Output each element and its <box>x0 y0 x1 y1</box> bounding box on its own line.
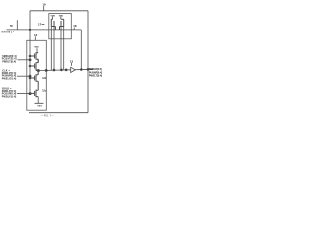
junction T3 gate <box>29 77 31 79</box>
wire right feedback vertical <box>87 11 89 113</box>
wire Q1 gate drop <box>53 27 55 70</box>
svg-text:SMXBL*: SMXBL* <box>1 32 14 34</box>
junction group 2 <box>29 75 31 77</box>
wire Q2 channel drop <box>63 27 65 71</box>
junction TE on gate bus <box>29 29 31 31</box>
wire input group 2 (CLK) <box>17 75 30 77</box>
svg-text:17: 17 <box>38 23 42 27</box>
transistor T3 (box 12) <box>30 70 38 90</box>
svg-text:PWDLT[0:4]: PWDLT[0:4] <box>2 61 16 64</box>
junction Q1 drop on output net <box>53 69 55 71</box>
svg-text:— FIG. 7 —: — FIG. 7 — <box>41 114 55 117</box>
transistor Q2 (PMOS, box 17 right) <box>60 19 64 30</box>
buffer U13 on output net <box>71 67 76 72</box>
junction node 18 on output net <box>80 69 82 71</box>
svg-text:VDD: VDD <box>59 15 64 17</box>
label 13 leader <box>70 63 72 66</box>
junction output net tap <box>65 69 67 71</box>
transistor T1 (PMOS, box 12) <box>30 52 38 62</box>
transistor T2 (box 12) <box>30 59 38 70</box>
wire output net to the right <box>36 69 93 70</box>
junction group 1 <box>29 59 31 61</box>
power VDD stub in box 12 <box>36 48 38 53</box>
svg-text:PWELY[0:4]: PWELY[0:4] <box>2 77 17 80</box>
svg-text:PWELT[0:4]: PWELT[0:4] <box>89 75 102 78</box>
junction group 3 <box>29 93 31 95</box>
svg-text:VDD: VDD <box>34 47 39 49</box>
power VDD stub left FET <box>52 17 54 19</box>
wire bottom return <box>29 112 88 114</box>
junction output tap T2 drain <box>37 70 39 72</box>
svg-text:TE: TE <box>10 25 13 28</box>
transistor Q1 (PMOS, box 17 left) <box>51 19 55 30</box>
transistor T4 (box 12) <box>30 90 38 98</box>
svg-text:12: 12 <box>34 33 38 37</box>
junction T1 gate <box>29 55 31 57</box>
junction T2 gate <box>29 65 31 67</box>
svg-text:13: 13 <box>70 59 74 63</box>
svg-text:12b: 12b <box>42 78 47 80</box>
wire left gate bus vertical <box>29 11 31 94</box>
svg-text:VSS: VSS <box>37 106 42 108</box>
wire node 18 drop to output net <box>80 30 82 70</box>
svg-text:VDD: VDD <box>51 15 56 17</box>
junction Q2 drop on output net <box>60 69 62 71</box>
label 12 leader <box>34 36 36 40</box>
wire Q2 gate drop <box>60 27 62 70</box>
label 19 leader <box>43 6 45 11</box>
svg-text:PWDLY[0:4]: PWDLY[0:4] <box>2 95 17 98</box>
wire TE terminal stub <box>16 20 18 30</box>
wire Q1 channel drop <box>50 27 52 71</box>
ground VSS symbol <box>35 97 44 104</box>
box 17 (PMOS pull-up pair block) <box>49 14 72 39</box>
box 12 (inverter chain block) <box>27 40 47 110</box>
junction box 12 output port <box>45 69 47 71</box>
label 17 leader <box>42 24 45 26</box>
junction right feedback on output net <box>87 68 89 70</box>
wire input group 1 <box>18 59 31 61</box>
wire TE / SMXBL* input net (runs through box 17 to node 18) <box>7 29 82 31</box>
wire top feedback rail (node 19) <box>30 10 88 12</box>
label 18 leader <box>73 28 75 30</box>
svg-text:19: 19 <box>42 3 46 7</box>
wire input group 3 (BULK) <box>17 93 30 95</box>
svg-text:18: 18 <box>73 24 77 28</box>
power VDD stub right FET <box>60 17 62 19</box>
